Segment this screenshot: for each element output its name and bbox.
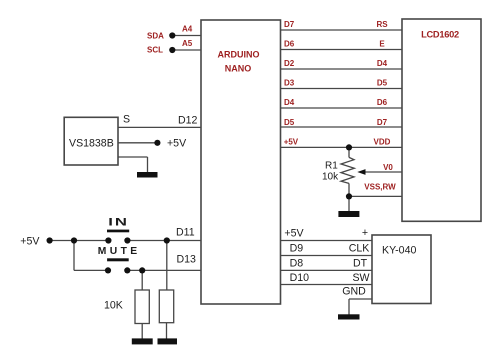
svg-text:+5V: +5V <box>284 227 304 239</box>
svg-text:10k: 10k <box>322 172 339 183</box>
svg-text:VS1838B: VS1838B <box>69 138 114 150</box>
svg-text:D11: D11 <box>176 227 195 239</box>
svg-text:SDA: SDA <box>147 32 164 41</box>
svg-text:NANO: NANO <box>225 63 252 73</box>
svg-text:D12: D12 <box>178 115 198 127</box>
svg-text:D7: D7 <box>284 20 295 29</box>
svg-text:D3: D3 <box>284 79 295 88</box>
svg-text:CLK: CLK <box>349 243 370 255</box>
svg-text:D5: D5 <box>284 118 295 127</box>
svg-text:D5: D5 <box>377 79 388 88</box>
svg-text:E: E <box>379 40 385 49</box>
svg-text:ARDUINO: ARDUINO <box>218 50 260 60</box>
svg-text:D7: D7 <box>377 118 388 127</box>
svg-text:+5V: +5V <box>20 235 40 247</box>
svg-text:D6: D6 <box>284 40 295 49</box>
svg-text:D2: D2 <box>284 59 295 68</box>
svg-text:D8: D8 <box>290 258 304 270</box>
svg-text:SCL: SCL <box>147 46 163 55</box>
svg-text:R1: R1 <box>325 161 338 172</box>
svg-text:KY-040: KY-040 <box>382 245 416 257</box>
svg-text:DT: DT <box>353 258 368 270</box>
svg-text:D4: D4 <box>284 98 295 107</box>
svg-text:S: S <box>123 114 130 126</box>
svg-text:+: + <box>362 227 368 239</box>
svg-text:D13: D13 <box>177 254 197 266</box>
svg-text:+5V: +5V <box>167 138 187 150</box>
svg-text:10K: 10K <box>104 299 123 311</box>
svg-text:A5: A5 <box>182 39 193 48</box>
svg-text:V0: V0 <box>383 163 393 172</box>
svg-text:D4: D4 <box>377 59 388 68</box>
svg-text:A4: A4 <box>182 25 193 34</box>
svg-text:+5V: +5V <box>284 138 299 147</box>
svg-text:D10: D10 <box>290 272 310 284</box>
svg-text:D9: D9 <box>290 243 304 255</box>
svg-text:VSS,RW: VSS,RW <box>364 183 396 192</box>
svg-text:SW: SW <box>352 272 369 284</box>
svg-text:RS: RS <box>376 20 388 29</box>
svg-text:VDD: VDD <box>374 138 391 147</box>
svg-text:D6: D6 <box>377 98 388 107</box>
svg-text:MUTE: MUTE <box>98 246 141 257</box>
svg-text:GND: GND <box>342 286 366 298</box>
svg-text:LCD1602: LCD1602 <box>421 29 459 39</box>
svg-text:IN: IN <box>108 215 129 227</box>
